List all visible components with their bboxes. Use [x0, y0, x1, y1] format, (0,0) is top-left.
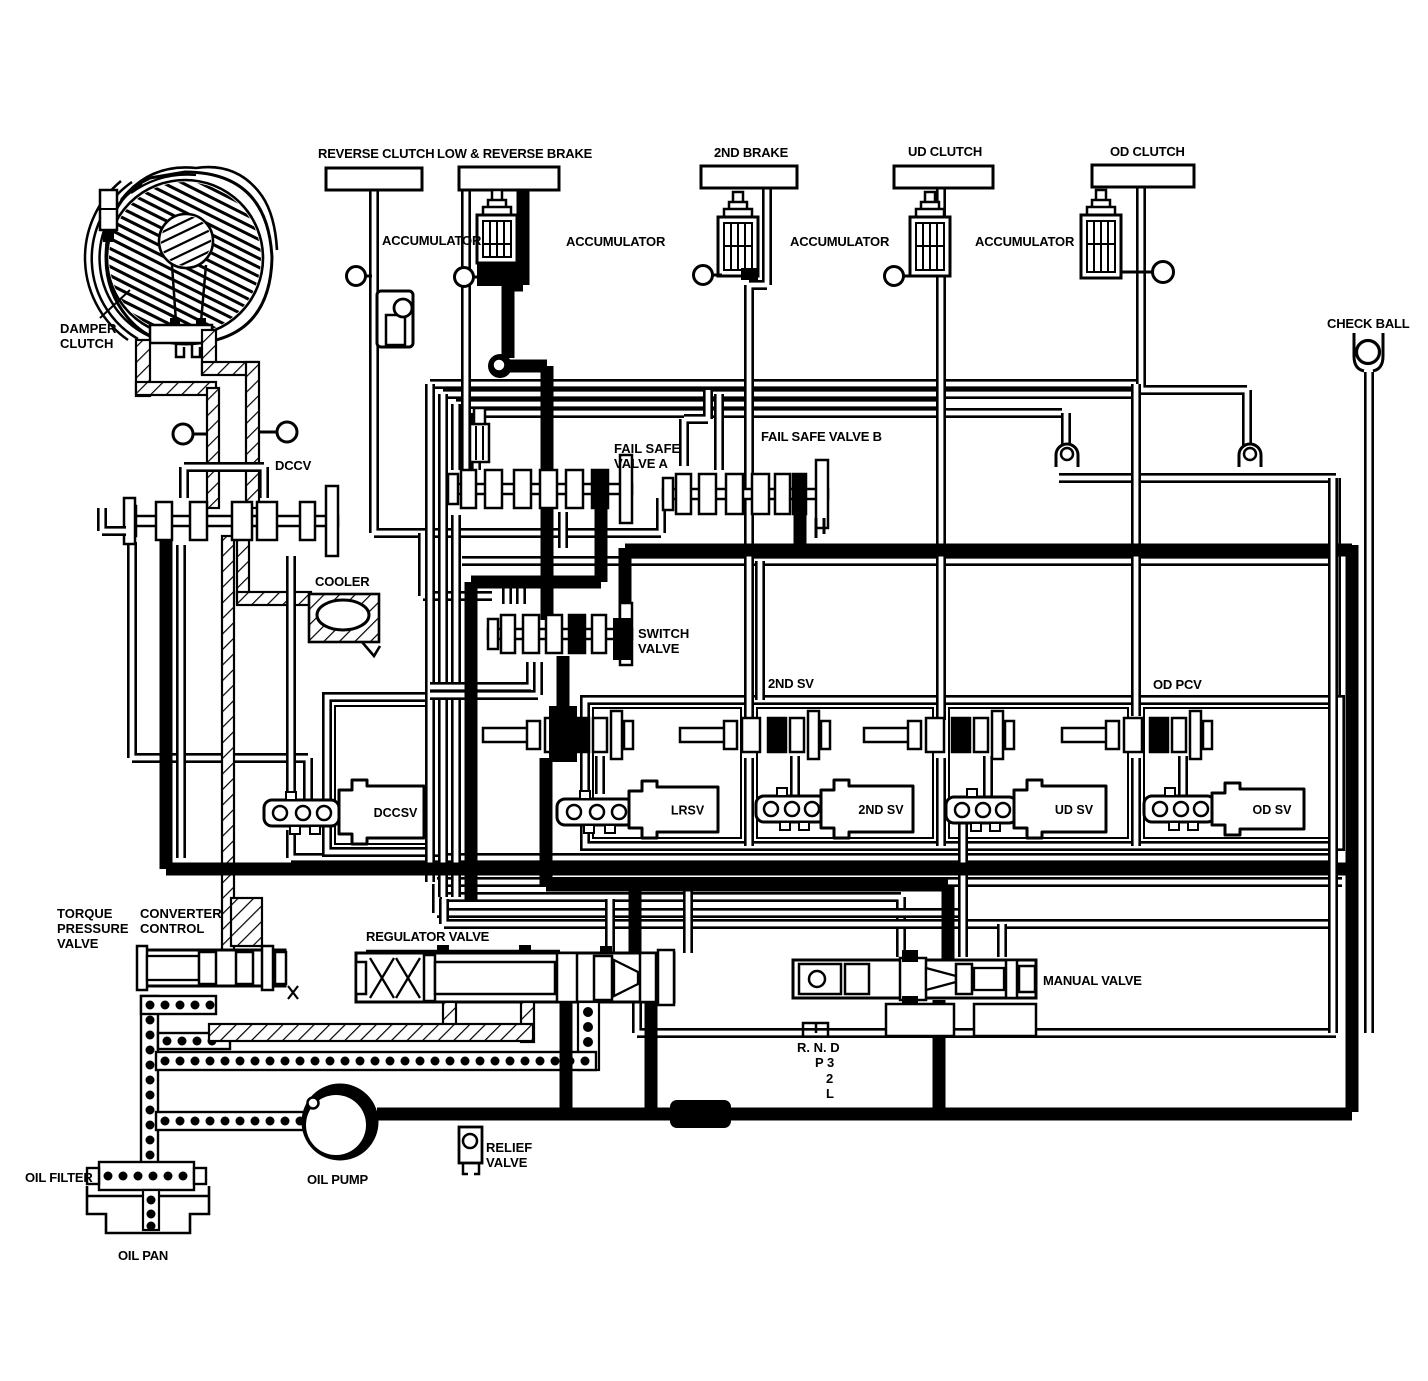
svg-text:L: L — [826, 1086, 834, 1101]
cooler — [309, 594, 380, 656]
svg-text:TORQUE: TORQUE — [57, 906, 113, 921]
label dccv — [275, 458, 312, 473]
2nd brake supply pipe — [749, 185, 767, 720]
label oil filter — [25, 1170, 93, 1185]
lrsv spool black center — [549, 706, 577, 762]
thick low-reverse line upper — [517, 188, 530, 285]
shift positions label — [797, 1040, 840, 1101]
svg-text:REGULATOR VALVE: REGULATOR VALVE — [366, 929, 490, 944]
relief valve — [459, 1127, 482, 1174]
low-reverse bar left pipe — [461, 185, 471, 472]
converter control label — [140, 906, 222, 936]
pipe rail4 riser to manual valve — [997, 924, 1007, 957]
svg-text:SWITCH: SWITCH — [638, 626, 689, 641]
pipe right frame vertical — [1328, 478, 1338, 1033]
svg-text:R. N. D: R. N. D — [797, 1040, 840, 1055]
svg-text:PRESSURE: PRESSURE — [57, 921, 129, 936]
thick switch valve to lrsv — [557, 656, 570, 712]
svg-text:CONVERTER: CONVERTER — [140, 906, 222, 921]
svg-text:OD SV: OD SV — [1253, 803, 1293, 817]
thick rail drop to switch valve — [619, 548, 632, 640]
svg-text:DCCSV: DCCSV — [374, 806, 418, 820]
pipe switch valve riser 2 — [516, 583, 526, 604]
od cell inner — [1144, 708, 1332, 838]
pipe fail-safe B riser 2 — [714, 394, 724, 470]
od clutch bar — [1092, 165, 1194, 187]
fail safe valve A — [448, 455, 632, 523]
label oil pump — [307, 1172, 369, 1187]
2nd brake bar — [701, 166, 797, 188]
svg-text:FAIL SAFE VALVE B: FAIL SAFE VALVE B — [761, 429, 882, 444]
label od pcv — [1153, 677, 1202, 692]
hatched pipe horizontal lower — [136, 382, 216, 395]
bundle line3 left drop — [451, 404, 461, 470]
cell partition 2nd-ud lower — [936, 758, 946, 846]
pipe switch valve riser 1 — [502, 583, 512, 604]
shift lever bracket — [803, 1023, 828, 1037]
damper clutch converter housing — [106, 167, 277, 344]
svg-text:LRSV: LRSV — [671, 804, 705, 818]
pipe od spool to flange — [1178, 756, 1188, 796]
svg-text:OD PCV: OD PCV — [1153, 677, 1202, 692]
solenoid valve LRSV box — [629, 781, 718, 838]
thick line node to switch valve — [508, 366, 547, 620]
pipe reverse branch to switch valve — [423, 533, 492, 596]
label cooler — [315, 574, 370, 589]
solenoid valve UD SV box — [1014, 780, 1106, 838]
ud sv flange — [946, 789, 1017, 831]
regulator valve — [356, 945, 674, 1005]
bundle line4 left drop — [471, 413, 481, 470]
torque pressure and converter control valve — [137, 946, 298, 999]
svg-text:MANUAL VALVE: MANUAL VALVE — [1043, 973, 1142, 988]
accumulator 2nd brake base mark — [741, 268, 758, 280]
reverse clutch supply pipe — [374, 185, 661, 533]
svg-text:2ND SV: 2ND SV — [768, 676, 814, 691]
switch valve right block — [613, 618, 631, 660]
label manual valve — [1043, 973, 1142, 988]
switch valve — [488, 603, 632, 665]
damper clutch hatched disc — [95, 57, 280, 462]
svg-text:FAIL SAFE: FAIL SAFE — [614, 441, 681, 456]
relief valve label — [486, 1140, 532, 1170]
hatched leg under regulator left — [443, 1002, 456, 1032]
dccv top loop pipe — [184, 467, 264, 498]
reverse line damper component — [377, 291, 413, 347]
ud sv spool — [864, 711, 1014, 759]
junction node low-reverse — [488, 354, 512, 378]
hatched pipe under regulator — [521, 1002, 534, 1042]
check ball pipe — [1364, 372, 1374, 1033]
svg-text:VALVE A: VALVE A — [614, 456, 669, 471]
od pcv pilot pipe down — [1131, 384, 1141, 716]
hatched box above converter control — [231, 898, 262, 946]
hatched pipe dccv to cooler — [237, 536, 249, 598]
pipe below fail-safe A — [558, 512, 568, 548]
svg-text:OIL PAN: OIL PAN — [118, 1248, 168, 1263]
pilot filter component — [470, 408, 489, 462]
pipe rail below feed 1 — [437, 877, 1342, 887]
label 2nd sv pilot — [768, 676, 814, 691]
label check ball — [1327, 316, 1410, 331]
svg-text:ACCUMULATOR: ACCUMULATOR — [975, 234, 1075, 249]
solenoid cells frame — [585, 700, 1340, 846]
pipe dccv left drain to dccsv — [132, 542, 308, 800]
bundle line 3 — [456, 399, 941, 409]
label accumulator 4 — [975, 234, 1075, 249]
damper clutch label — [60, 290, 130, 351]
pipe ud spool to flange — [983, 756, 993, 796]
hatched pipe into cooler — [237, 592, 311, 605]
pipe dccv drain companion — [176, 545, 186, 858]
accumulator od clutch — [1081, 190, 1121, 278]
thick right riser — [1346, 545, 1359, 1112]
orifice reverse clutch line — [347, 267, 373, 286]
thick main pressure rail — [625, 544, 1352, 557]
thick solenoid feed rail — [166, 863, 1348, 876]
pipe ud solenoid to manual valve — [958, 822, 968, 957]
od pcv spool — [1062, 711, 1212, 759]
hatched pipe dccv to converter control — [222, 536, 234, 960]
dccsv cell frame — [327, 697, 436, 852]
svg-text:ACCUMULATOR: ACCUMULATOR — [790, 234, 890, 249]
svg-text:OD CLUTCH: OD CLUTCH — [1110, 144, 1185, 159]
bundle line1 left drop — [425, 384, 435, 882]
pipe riser to check dome 1 — [1061, 413, 1071, 448]
bundle line 4 — [476, 408, 1062, 418]
lrsv cell inner — [593, 708, 741, 838]
svg-text:VALVE: VALVE — [486, 1155, 528, 1170]
suction pipe to oil pump — [156, 1112, 305, 1130]
pipe fail-safe B riser hook — [684, 390, 708, 466]
low-reverse accumulator black base — [477, 252, 517, 286]
pipe under main pressure rail — [462, 556, 1338, 566]
fail safe valve A label — [614, 441, 681, 471]
svg-text:UD SV: UD SV — [1055, 803, 1094, 817]
svg-text:UD CLUTCH: UD CLUTCH — [908, 144, 982, 159]
suction pipe step — [158, 1033, 230, 1049]
pipe rail below feed 4 — [444, 899, 1329, 924]
solenoid valve DCCSV box — [339, 780, 424, 844]
damper clutch hub funnel — [150, 265, 212, 357]
pipe lrsv spool to flange — [595, 756, 605, 794]
bundle line2 left drop — [438, 394, 448, 897]
thick line bulge — [670, 1100, 731, 1128]
pipe dome rail to od pcv cell — [1059, 478, 1336, 700]
thick manual valve drain — [933, 1000, 946, 1112]
svg-text:RELIEF: RELIEF — [486, 1140, 532, 1155]
pipe switch valve drain 1 — [430, 662, 531, 687]
hatched pipe horizontal upper — [202, 362, 258, 375]
svg-text:CONTROL: CONTROL — [140, 921, 204, 936]
inner circle hatch — [150, 170, 225, 312]
svg-text:VALVE: VALVE — [638, 641, 680, 656]
solenoid valve OD SV box — [1212, 783, 1304, 835]
2nd sv flange — [756, 788, 826, 830]
suction pipe to converter control — [141, 996, 216, 1014]
cell partition ud-od lower — [1131, 758, 1141, 846]
svg-text:OIL PUMP: OIL PUMP — [307, 1172, 369, 1187]
bundle line 1 — [430, 379, 1136, 389]
switch valve label — [638, 626, 689, 656]
dccsv flange — [264, 792, 339, 834]
svg-text:REVERSE CLUTCH: REVERSE CLUTCH — [318, 146, 434, 161]
cell partition lrsv-2nd lower — [744, 758, 754, 846]
hatched pipe left vertical to DCCV — [207, 388, 219, 508]
orifice low-reverse accumulator — [455, 268, 483, 287]
svg-text:2ND BRAKE: 2ND BRAKE — [714, 145, 789, 160]
2nd sv pilot pipe — [755, 561, 765, 700]
check valve dome 2 — [1239, 444, 1261, 467]
suction pipe middle horizontal — [156, 1052, 596, 1070]
accumulator low-reverse brake — [477, 190, 517, 263]
dccv left port pipe — [102, 508, 126, 531]
thick low-reverse jog — [508, 285, 523, 358]
svg-text:COOLER: COOLER — [315, 574, 370, 589]
regulator spring dots — [578, 1002, 599, 1070]
filter to pan dots — [143, 1190, 159, 1231]
thick branch to regulator valve — [629, 885, 642, 957]
manual valve — [793, 950, 1036, 1008]
bleed orifice right — [258, 422, 297, 442]
orifice 2nd brake accumulator — [694, 266, 723, 285]
thick regulator drain left — [560, 1002, 573, 1110]
svg-text:CHECK BALL: CHECK BALL — [1327, 316, 1410, 331]
hatched pipe right vertical to DCCV — [246, 362, 259, 508]
svg-text:ACCUMULATOR: ACCUMULATOR — [566, 234, 666, 249]
bleed orifice left — [173, 424, 208, 444]
damper clutch turbine inner circle — [159, 214, 213, 268]
label low reverse brake — [437, 146, 593, 161]
manual valve port box 2 — [974, 1004, 1036, 1036]
torque pressure valve label — [57, 906, 129, 951]
reverse clutch bar — [326, 168, 422, 190]
solenoid valve 2ND SV box — [821, 780, 913, 838]
pipe rail below feed 2 — [444, 897, 901, 957]
ud clutch bar — [894, 166, 993, 188]
label fail safe valve B — [761, 429, 882, 444]
dccv left plate — [124, 498, 135, 544]
svg-text:P 3: P 3 — [815, 1055, 834, 1070]
svg-text:ACCUMULATOR: ACCUMULATOR — [382, 233, 482, 248]
accumulator 2nd brake — [718, 192, 758, 276]
pipe riser to regulator 2 — [683, 884, 693, 953]
thick lrsv to manual valve — [546, 758, 948, 962]
oil pan — [87, 1186, 209, 1233]
damper clutch stator tab — [100, 190, 117, 242]
svg-text:DAMPER: DAMPER — [60, 321, 117, 336]
svg-text:CLUTCH: CLUTCH — [60, 336, 113, 351]
svg-text:2: 2 — [826, 1071, 833, 1086]
lrsv flange — [557, 791, 634, 833]
label reverse clutch — [318, 146, 434, 161]
label 2nd brake — [714, 145, 789, 160]
ud clutch supply pipe — [936, 185, 946, 720]
check ball — [1354, 333, 1383, 371]
orifice od accumulator — [1121, 262, 1174, 283]
svg-text:DCCV: DCCV — [275, 458, 312, 473]
od sv flange — [1144, 788, 1215, 830]
manual valve port box 1 — [886, 1004, 954, 1036]
label oil pan — [118, 1248, 168, 1263]
svg-text:LOW & REVERSE BRAKE: LOW & REVERSE BRAKE — [437, 146, 593, 161]
dccsv cell inner frame — [335, 706, 428, 844]
fail safe valve B — [663, 460, 828, 528]
pipe manual valve bottom frame — [637, 1002, 1336, 1033]
thick fail-safe A drain — [471, 470, 601, 901]
svg-text:2ND SV: 2ND SV — [858, 803, 904, 817]
pipe dccv right port to dccsv flange — [286, 556, 296, 800]
pipe rail above feed rail — [291, 830, 1336, 858]
label regulator valve — [366, 929, 490, 944]
pipe rail below feed 3 — [437, 884, 965, 913]
pipe switch valve drain 2 — [430, 662, 538, 695]
pipe fail-safe A drop to rails — [451, 515, 461, 897]
fail safe valve B spring — [816, 518, 824, 538]
od clutch supply pipe — [1141, 185, 1247, 450]
oil filter tabs — [87, 1168, 206, 1184]
ud cell inner — [949, 708, 1128, 838]
thick dccv drain left vertical — [160, 534, 173, 869]
dccv spool valve — [126, 486, 338, 556]
low-reverse brake bar — [459, 167, 559, 190]
orifice ud accumulator — [885, 267, 914, 286]
thick oil pump output line — [377, 1108, 1352, 1121]
label od clutch — [1110, 144, 1185, 159]
hatched main line to regulator — [209, 1024, 533, 1041]
2nd cell inner — [757, 708, 933, 838]
oil pump — [303, 1085, 377, 1159]
label accumulator 2 — [566, 234, 666, 249]
oil filter — [99, 1162, 194, 1190]
label ud clutch — [908, 144, 982, 159]
accumulator ud clutch — [910, 192, 950, 276]
pipe riser to regulator 1 — [605, 899, 615, 953]
pipe 2nd spool to flange — [790, 756, 800, 796]
svg-text:OIL FILTER: OIL FILTER — [25, 1170, 93, 1185]
2nd sv spool — [680, 711, 830, 759]
thick fail-safe B drop — [794, 515, 807, 550]
lrsv spool — [483, 711, 633, 759]
bundle line 2 — [443, 389, 1132, 399]
damper clutch left shell arcs — [85, 181, 149, 340]
hatched pipe from clutch left down — [136, 340, 150, 396]
svg-text:VALVE: VALVE — [57, 936, 99, 951]
label accumulator 1 — [382, 233, 482, 248]
hatched pipe from clutch right down — [202, 330, 216, 374]
check valve dome 1 — [1056, 444, 1078, 467]
thick regulator drain right — [645, 1002, 658, 1110]
label accumulator 3 — [790, 234, 890, 249]
suction pipe vertical — [141, 996, 158, 1168]
